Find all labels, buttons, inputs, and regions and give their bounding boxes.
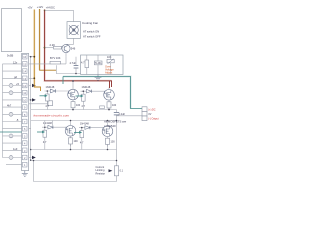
over voltage box — [81, 55, 123, 75]
wire pin13 — [3, 77, 23, 79]
svg-text:546: 546 — [71, 47, 76, 51]
svg-text:BYV 10K: BYV 10K — [50, 56, 61, 60]
left vertical bus — [2, 64, 4, 158]
MOSFET T2 stage — [76, 86, 117, 110]
svg-text:11: 11 — [23, 91, 26, 95]
fan icon — [69, 25, 78, 34]
svg-text:+HVDC: +HVDC — [46, 5, 55, 9]
junction dots on bus — [30, 56, 32, 161]
red label Over Voltage Adjust — [105, 65, 114, 75]
svg-text:0.1: 0.1 — [120, 169, 124, 172]
svg-text:4k7: 4k7 — [7, 103, 12, 107]
transformer box (top-left large box) — [2, 9, 22, 52]
svg-text:4.7: 4.7 — [81, 62, 85, 65]
horizontal buses — [31, 110, 142, 182]
svg-text:12v: 12v — [13, 60, 18, 64]
fan to transistor wire — [66, 38, 74, 44]
svg-text:14: 14 — [23, 70, 27, 74]
wire pin6 — [3, 128, 23, 130]
label current limiting resistor — [96, 165, 106, 175]
svg-text:13: 13 — [23, 77, 27, 81]
capacitor 4.7uF — [70, 57, 79, 74]
source wires to buses — [71, 108, 110, 150]
svg-text:Resistor: Resistor — [96, 171, 106, 175]
fan supply wire — [45, 10, 74, 21]
svg-text:15: 15 — [23, 62, 27, 66]
connector labels — [148, 108, 159, 120]
cooling fan box — [67, 22, 81, 39]
resistor 4.7 inside ov box — [81, 55, 89, 75]
emitter wire — [65, 53, 67, 57]
wire from resistor down-left — [56, 56, 80, 73]
svg-text:= IRF540: = IRF540 — [104, 124, 116, 128]
wire pin9 — [3, 106, 23, 108]
IC TL494 body — [22, 53, 29, 170]
junction dots on rails — [33, 10, 45, 80]
svg-text:Cooling Fan: Cooling Fan — [82, 21, 99, 25]
preset 10K — [107, 55, 114, 75]
wire with inline box to the right of IC — [29, 103, 48, 105]
IC ground — [22, 171, 28, 177]
teal wire into IC pin6 — [0, 131, 22, 133]
svg-text:+12V: +12V — [37, 5, 44, 9]
IC pin numbers — [23, 55, 27, 167]
ground below ov box — [95, 75, 102, 81]
svg-text:AT switch OFF: AT switch OFF — [83, 34, 101, 38]
wire pin12 — [3, 85, 23, 87]
wire pin5 — [3, 135, 23, 137]
svg-text:+5V: +5V — [28, 5, 33, 9]
transistor BC546 — [62, 44, 70, 52]
soft halos along colored rails — [34, 9, 130, 109]
gray wires: IC left-side rows — [3, 57, 23, 165]
wire pin7 — [3, 121, 23, 123]
teal feedback wire — [63, 77, 142, 109]
power rail labels — [28, 5, 56, 10]
svg-text:4.7uF: 4.7uF — [70, 61, 77, 65]
wire pin4 — [3, 142, 23, 144]
bus junction dots — [33, 80, 118, 161]
HVDC rail (dark red) — [45, 10, 112, 88]
drain wires — [71, 81, 110, 126]
wire pin3 — [3, 149, 23, 151]
TL431 — [94, 55, 102, 75]
svg-text:Adjust: Adjust — [105, 71, 112, 75]
small right arrows near bus — [32, 84, 36, 159]
wire pin10 — [3, 99, 23, 101]
+12V rail (orange) — [40, 9, 57, 70]
resistor BYV 10K — [29, 56, 66, 64]
wire pin8 — [3, 113, 23, 115]
svg-text:AT switch ON: AT switch ON — [83, 29, 99, 33]
svg-text:1uF: 1uF — [13, 147, 18, 151]
IC pin squares pins 16..1 — [22, 54, 27, 167]
wire pin1 — [6, 164, 22, 166]
gate resistor bottom wires — [45, 105, 84, 150]
wire pin2 — [3, 157, 23, 159]
svg-text:All MOSFETS are: All MOSFETS are — [104, 120, 127, 124]
wire pin14 — [3, 70, 23, 72]
right-side bus of IC — [29, 57, 35, 161]
MOSFET T1 stage — [40, 86, 81, 110]
note All MOSFETS are IRF540 — [104, 120, 127, 129]
resistor R 2.2K — [45, 43, 62, 49]
output connector — [142, 107, 147, 121]
node circles on left wires — [9, 84, 13, 160]
svg-text:homemade-circuits.com: homemade-circuits.com — [34, 114, 70, 118]
wire pin16 from box — [21, 56, 24, 58]
svg-text:0V: 0V — [148, 113, 151, 116]
+5V rail (orange) — [34, 10, 40, 92]
svg-text:16: 16 — [23, 55, 27, 59]
svg-text:2.2uF: 2.2uF — [119, 112, 126, 116]
svg-text:TL431: TL431 — [95, 62, 102, 65]
svg-text:10K: 10K — [107, 56, 112, 59]
tiny labels left side — [7, 53, 20, 151]
capacitor 2.2uF — [100, 106, 126, 116]
svg-text:12: 12 — [23, 84, 27, 88]
svg-text:(+) DC: (+) DC — [148, 108, 155, 111]
svg-text:10: 10 — [23, 98, 27, 102]
svg-text:(-) Output: (-) Output — [148, 118, 159, 121]
wire pin11 — [3, 92, 23, 94]
wire pin15 — [3, 63, 23, 65]
MOSFET T3 stage — [37, 122, 78, 146]
MOSFET T4 stage — [74, 123, 115, 147]
svg-text:5vSB: 5vSB — [7, 53, 13, 57]
current limiting resistor box — [114, 166, 123, 176]
